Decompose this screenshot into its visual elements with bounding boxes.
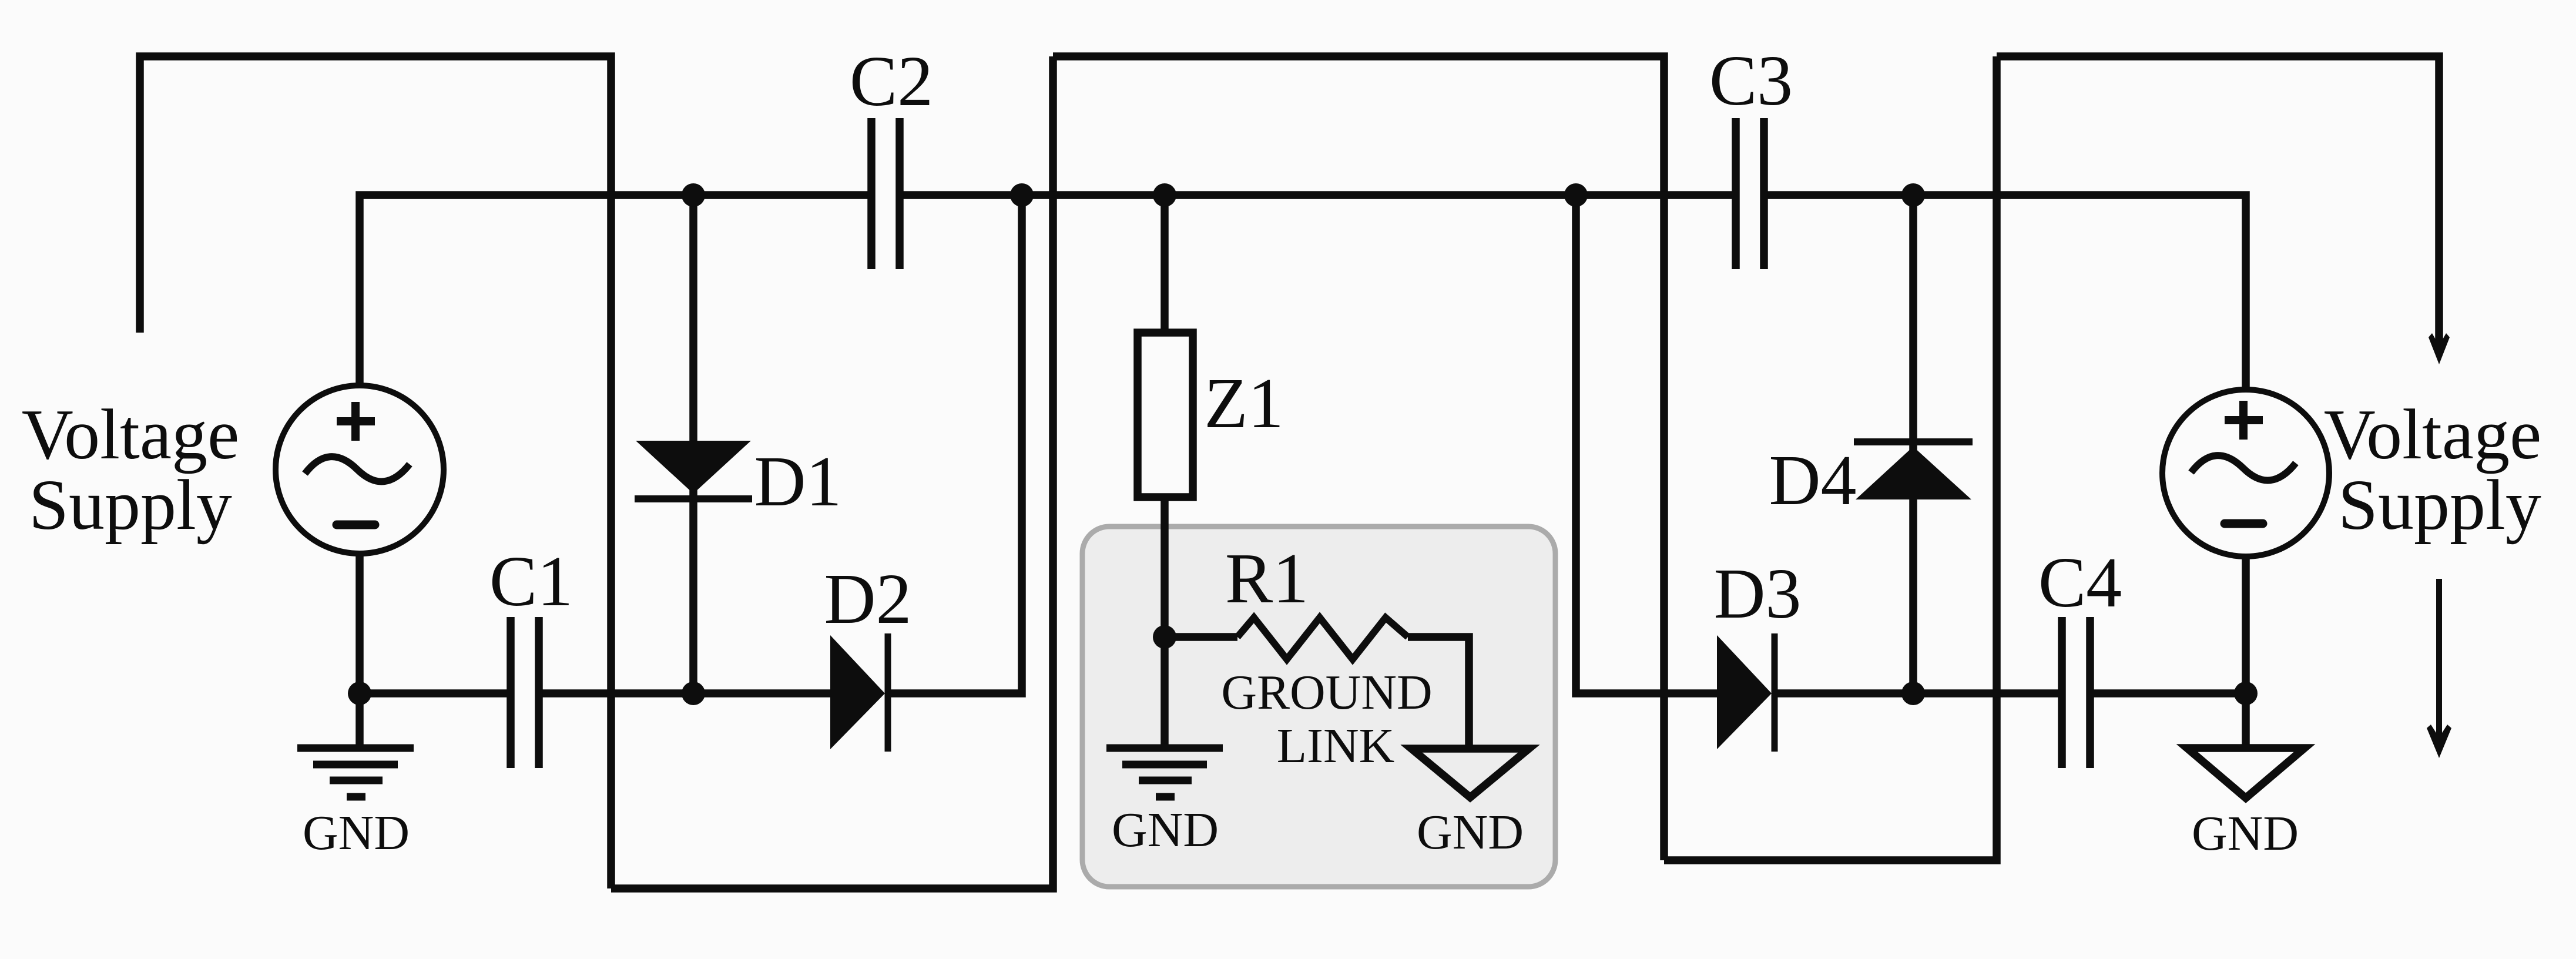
junction node bus-D4: [1901, 183, 1925, 207]
diode D4 (pointing up): [1854, 442, 1973, 499]
wire D4 branch: [1909, 195, 1917, 693]
junction node Z1-R1: [1153, 625, 1176, 649]
ground symbol triangle right supply: [2187, 748, 2305, 798]
svg-text:Supply: Supply: [2338, 465, 2541, 545]
voltage supply right circle: [2162, 390, 2329, 556]
junction node D1-D2: [682, 682, 705, 705]
svg-text:Voltage: Voltage: [2324, 395, 2541, 474]
svg-text:GND: GND: [303, 806, 410, 860]
wire top-left loop: [140, 56, 611, 888]
svg-text:GROUND: GROUND: [1221, 665, 1432, 720]
capacitor C3 plates: [1736, 118, 1764, 269]
ground symbol triangle R1 link: [1411, 749, 1529, 797]
sine wave left supply: [305, 457, 410, 481]
svg-text:Supply: Supply: [29, 465, 232, 545]
wire D3 riser and lead: [1576, 195, 1717, 693]
wire Z1 top lead: [1160, 195, 1169, 333]
svg-text:GND: GND: [2192, 806, 2299, 861]
plus sign left supply: [337, 402, 375, 441]
wire right supply bottom: [2242, 556, 2250, 747]
svg-text:D4: D4: [1769, 441, 1856, 520]
wire D3 cathode lead: [1775, 689, 1913, 698]
ground link box (gray rounded): [1082, 527, 1555, 887]
plus sign right supply: [2225, 401, 2263, 440]
svg-text:D1: D1: [754, 442, 841, 521]
wire bottom-left: [611, 56, 1053, 888]
svg-text:Z1: Z1: [1204, 364, 1284, 443]
capacitor C2 plates: [871, 118, 900, 269]
sine wave right supply: [2191, 455, 2296, 480]
ground symbol Z1: [1106, 748, 1223, 797]
junction node C4-supply: [2234, 682, 2258, 705]
wire R1 left lead: [1165, 633, 1237, 641]
resistor R1 zigzag: [1237, 618, 1408, 659]
wire D1 branch: [689, 195, 697, 693]
svg-text:D2: D2: [824, 559, 911, 639]
diode D1 (cathode-down): [635, 441, 752, 499]
junction node supply-C1: [348, 682, 371, 705]
svg-text:C1: C1: [489, 542, 573, 621]
svg-text:LINK: LINK: [1277, 719, 1395, 773]
wire C4 left lead: [1913, 689, 2062, 698]
wire Z1 bottom to gnd: [1160, 497, 1169, 748]
svg-text:R1: R1: [1225, 539, 1309, 618]
junction node bus-D3 riser: [1564, 183, 1588, 207]
wire C1 right lead to D-node: [539, 689, 830, 698]
voltage supply left circle: [276, 385, 444, 554]
wire C4 right lead: [2090, 689, 2246, 698]
junction node bus-Z1: [1153, 183, 1176, 207]
wire top-middle: [1053, 56, 1664, 860]
wire D2 cathode to bus riser: [891, 195, 1022, 693]
wire main bus left segment: [360, 195, 871, 385]
wire bus C3 to right supply: [1764, 195, 2246, 390]
minus sign right supply: [2225, 519, 2263, 528]
wire supply gnd stub: [355, 693, 364, 748]
capacitor C4 plates: [2062, 617, 2090, 768]
arrow down right-top: [2429, 333, 2450, 364]
capacitor C1 plates: [511, 617, 539, 768]
svg-text:C4: C4: [2038, 543, 2122, 622]
svg-text:C3: C3: [1709, 41, 1793, 120]
svg-text:Voltage: Voltage: [22, 395, 239, 474]
svg-text:GND: GND: [1417, 805, 1524, 860]
arrow down right-lower: [2427, 579, 2451, 758]
wire left supply bottom: [355, 554, 364, 693]
wire bus C2 to C3: [900, 191, 1736, 199]
minus sign left supply: [337, 521, 375, 529]
wire top-right: [1997, 56, 2439, 350]
svg-text:D3: D3: [1713, 554, 1801, 633]
svg-text:GND: GND: [1112, 803, 1219, 857]
wire R1 right lead to gnd: [1408, 637, 1469, 749]
junction node bus-D1: [682, 183, 705, 207]
wire C1 left lead: [360, 689, 511, 698]
zener Z1 body: [1138, 333, 1193, 497]
svg-text:C2: C2: [850, 42, 933, 121]
wire bottom-middle: [1664, 56, 1997, 860]
diode D2 (pointing right): [830, 633, 888, 752]
diode D3 (pointing right): [1717, 633, 1775, 752]
junction node bus-D2 riser: [1010, 183, 1034, 207]
junction node D4-C4: [1901, 682, 1925, 705]
ground symbol left supply: [297, 748, 414, 797]
